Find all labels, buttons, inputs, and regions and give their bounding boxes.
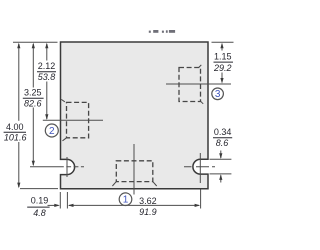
svg-text:1.15: 1.15 xyxy=(214,52,232,62)
svg-text:3.25: 3.25 xyxy=(24,88,42,98)
svg-text:29.2: 29.2 xyxy=(213,63,232,73)
svg-text:2: 2 xyxy=(49,126,55,137)
svg-text:3.62: 3.62 xyxy=(139,196,157,206)
svg-text:4.8: 4.8 xyxy=(33,208,46,218)
svg-text:4.00: 4.00 xyxy=(6,122,24,132)
svg-text:101.6: 101.6 xyxy=(4,133,27,143)
svg-text:8.6: 8.6 xyxy=(216,138,229,148)
svg-text:1: 1 xyxy=(123,195,129,206)
svg-text:0.34: 0.34 xyxy=(214,127,232,137)
svg-text:2.12: 2.12 xyxy=(38,61,56,71)
svg-text:53.8: 53.8 xyxy=(38,72,56,82)
svg-text:82.6: 82.6 xyxy=(24,98,42,108)
svg-text:91.9: 91.9 xyxy=(139,207,157,217)
svg-text:3: 3 xyxy=(215,89,221,100)
svg-text:0.19: 0.19 xyxy=(31,196,49,206)
